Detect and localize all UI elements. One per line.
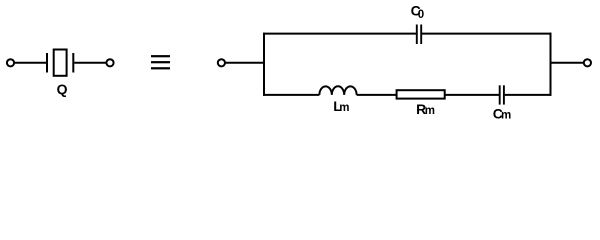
wire (top rail right): [422, 33, 551, 35]
terminal (crystal left): [7, 59, 14, 66]
wire: [551, 62, 583, 64]
inductor Lm: [319, 86, 356, 95]
wire (bottom rail right): [505, 94, 552, 96]
wire: [74, 62, 106, 64]
svg-text:m: m: [425, 105, 435, 117]
equivalence symbol: [151, 55, 170, 69]
wire: [445, 94, 499, 96]
crystal Q: [47, 50, 73, 76]
wire: [357, 94, 397, 96]
terminal (network right): [584, 59, 591, 66]
svg-text:0: 0: [418, 9, 424, 21]
wire (bottom rail left): [263, 94, 319, 96]
terminal (crystal right): [106, 59, 113, 66]
wire: [225, 62, 265, 64]
svg-text:m: m: [339, 102, 349, 114]
capacitor C0: [417, 25, 421, 45]
wire (top rail left): [263, 33, 416, 35]
wire (left vertical): [263, 33, 265, 96]
capacitor Cm: [500, 85, 504, 104]
wire: [14, 62, 46, 64]
svg-text:m: m: [501, 110, 511, 122]
resistor Rm: [397, 90, 445, 98]
svg-text:Q: Q: [57, 81, 68, 97]
terminal (network left): [218, 59, 225, 66]
wire (right vertical): [550, 33, 552, 96]
